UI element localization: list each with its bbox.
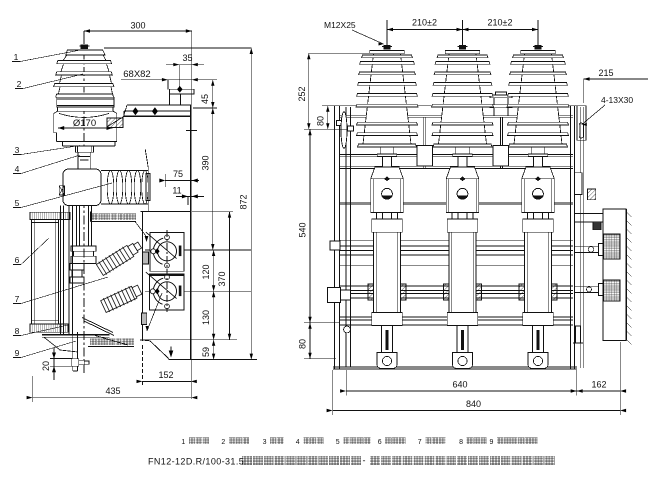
neck column xyxy=(534,157,543,167)
barrier B-C xyxy=(500,117,502,168)
insulator shed 4 xyxy=(56,94,114,97)
svg-text:872: 872 xyxy=(239,194,249,209)
bushing shed xyxy=(432,122,493,125)
switch side tab xyxy=(59,186,64,195)
operating hole 1 xyxy=(146,232,182,268)
frame edge near interrupter xyxy=(145,149,148,167)
svg-text:35: 35 xyxy=(182,53,192,63)
rail y166 xyxy=(340,165,574,167)
bushing shed xyxy=(510,72,567,75)
svg-text:2: 2 xyxy=(17,79,22,89)
frame right edge xyxy=(190,105,192,360)
bell flange xyxy=(58,107,114,111)
wire tick circle2 xyxy=(145,290,251,292)
svg-text:120: 120 xyxy=(201,264,211,279)
bushing shed xyxy=(437,55,488,58)
bushing shed xyxy=(508,122,569,125)
bolt on shelf 2 xyxy=(152,107,158,115)
shaft stub lower xyxy=(575,284,604,296)
dimension 162 xyxy=(571,380,626,393)
mech rod xyxy=(579,107,581,368)
contact housing (bell) xyxy=(371,167,404,179)
label 4-13X30 xyxy=(582,95,634,126)
dimension 370 xyxy=(192,212,233,340)
wire tick circle1 xyxy=(145,249,251,251)
dimension 300 xyxy=(84,21,192,65)
bottom plate line xyxy=(169,359,257,361)
insulator shed 2 xyxy=(56,72,113,75)
fuse tube top cap xyxy=(447,219,478,232)
svg-text:Ø170: Ø170 xyxy=(73,118,96,129)
svg-text:75: 75 xyxy=(173,169,183,179)
bushing shed xyxy=(511,62,566,65)
neck step xyxy=(528,154,547,157)
hinge flange stack xyxy=(71,246,96,251)
label earth switch op hole xyxy=(88,339,134,347)
dimension 59 xyxy=(201,340,215,360)
box hinge tab 1 xyxy=(143,252,149,264)
dimension 45 xyxy=(193,80,217,108)
svg-text:3: 3 xyxy=(15,145,20,155)
shaft coupling right xyxy=(476,284,482,300)
svg-text:4-13X30: 4-13X30 xyxy=(601,95,633,105)
wall plate xyxy=(603,209,626,341)
svg-text:M12X25: M12X25 xyxy=(324,20,356,30)
datum arrow xyxy=(169,347,174,358)
bushing shed xyxy=(433,83,492,86)
wire tick 59 top xyxy=(140,339,237,341)
load switch body xyxy=(63,169,101,206)
svg-text:9: 9 xyxy=(15,348,20,358)
bushing shed xyxy=(432,104,494,107)
bushing shed xyxy=(513,55,564,58)
dimension 840 xyxy=(327,342,626,415)
contact housing (bell) xyxy=(446,167,479,179)
mounting shelf xyxy=(107,105,191,127)
bushing neck xyxy=(531,147,545,154)
svg-text:4: 4 xyxy=(296,439,300,446)
insulator shed 1 xyxy=(57,61,112,64)
svg-text:540: 540 xyxy=(297,222,307,237)
dimension 210+-2 left xyxy=(387,18,463,44)
svg-text:252: 252 xyxy=(297,86,307,101)
svg-text:2: 2 xyxy=(221,439,225,446)
bushing neck xyxy=(380,147,394,154)
interrupter ring xyxy=(125,170,132,204)
terminal 1 (top bolt) xyxy=(81,45,88,49)
label load switch op hole xyxy=(91,212,137,222)
fuse tube top cap xyxy=(523,219,554,232)
bushing shed xyxy=(433,144,492,147)
dimension 252 xyxy=(297,53,369,129)
dimension 68X82 xyxy=(121,69,204,89)
upper shaft rails xyxy=(340,239,574,241)
fuse tube bottom cap xyxy=(447,313,478,326)
mounting rail double xyxy=(340,115,574,117)
bushing shed xyxy=(360,62,415,65)
insulator shed 3 xyxy=(54,84,114,87)
bushing shed xyxy=(434,72,491,75)
left bracket xyxy=(328,241,351,303)
neck step xyxy=(377,154,396,157)
insulator cap xyxy=(66,50,105,55)
bushing shed xyxy=(357,122,418,125)
drive shaft upper xyxy=(78,152,90,169)
svg-text:80: 80 xyxy=(297,339,307,349)
shaft coupling left xyxy=(368,284,374,300)
svg-text:370: 370 xyxy=(217,271,227,286)
dimension 130 xyxy=(201,291,215,340)
mounting slot 13X30 xyxy=(579,123,583,138)
base bracket B-C xyxy=(493,146,509,167)
fuse tube bottom cap xyxy=(372,313,403,326)
svg-text:59: 59 xyxy=(201,347,211,357)
bushing terminal bolt xyxy=(384,45,390,49)
bushing shed xyxy=(509,144,568,147)
dimension 35 xyxy=(166,53,204,89)
svg-text:9: 9 xyxy=(490,439,494,446)
svg-text:4: 4 xyxy=(15,164,20,174)
bottom bracket plate xyxy=(42,335,110,352)
bottom contact tab xyxy=(377,353,397,369)
fuse tube body xyxy=(525,232,552,312)
bushing terminal bolt xyxy=(459,45,465,49)
shaft coupling left xyxy=(444,284,450,300)
svg-text:3: 3 xyxy=(263,439,267,446)
neck column xyxy=(458,157,467,167)
interrupter ring xyxy=(142,170,149,204)
bushing cap xyxy=(370,51,404,54)
nut stack xyxy=(527,213,548,220)
frame top rail xyxy=(335,105,577,107)
neck column xyxy=(383,157,392,167)
fuse tube bottom cap xyxy=(523,313,554,326)
contact eye xyxy=(457,188,468,199)
dimension 75 xyxy=(159,169,199,187)
interrupter ring xyxy=(107,170,114,204)
bottom contact tab xyxy=(453,353,473,369)
svg-text:152: 152 xyxy=(158,370,173,380)
box hinge tab 2 xyxy=(142,313,147,325)
nut stack xyxy=(376,213,397,220)
fuse tube top cap xyxy=(372,219,403,232)
hatched mounting flange xyxy=(107,105,127,127)
shaft coupling left xyxy=(519,284,525,300)
bushing shed xyxy=(357,94,418,97)
mech bolt lower xyxy=(576,326,581,343)
phase centerline xyxy=(462,20,464,370)
operating panel 1 xyxy=(150,233,184,272)
dimension 640 xyxy=(340,370,583,396)
dimension 11 xyxy=(172,186,204,206)
bushing shed xyxy=(507,104,569,107)
contact housing (bell) xyxy=(522,167,555,179)
svg-text:11: 11 xyxy=(172,186,181,196)
wall block lower xyxy=(604,280,621,301)
box centerline xyxy=(166,230,168,312)
right flange plate xyxy=(577,106,586,141)
svg-text:1: 1 xyxy=(181,439,185,446)
svg-text:162: 162 xyxy=(591,380,606,390)
svg-text:6: 6 xyxy=(15,255,20,265)
operating panel 2 xyxy=(150,274,184,310)
diamond mark xyxy=(535,177,541,182)
shaft stub upper xyxy=(575,244,604,256)
interrupter tube xyxy=(101,171,150,205)
left upright xyxy=(334,106,336,369)
shaft coupling right xyxy=(552,284,558,300)
contact eye xyxy=(382,188,393,199)
shaft coupling right xyxy=(401,284,407,300)
earthing arm vertical xyxy=(73,332,78,371)
rail y154 xyxy=(340,153,574,155)
phase centerline xyxy=(386,20,388,370)
bushing shed xyxy=(435,62,490,65)
rail y203 xyxy=(340,202,574,204)
svg-text:5: 5 xyxy=(336,439,340,446)
bushing shed xyxy=(362,55,413,58)
base bracket A-B xyxy=(417,146,433,167)
title xyxy=(148,456,554,467)
earthing bolt xyxy=(71,359,89,367)
svg-text:840: 840 xyxy=(466,399,481,409)
bushing shed xyxy=(508,94,569,97)
mech pivot block xyxy=(593,222,601,230)
bushing shed xyxy=(357,133,418,136)
bushing shed xyxy=(358,83,417,86)
svg-text:45: 45 xyxy=(200,94,210,104)
bushing core xyxy=(363,54,411,144)
bushing shed xyxy=(432,133,493,136)
dimension 80 lower xyxy=(297,323,336,359)
svg-text:7: 7 xyxy=(418,439,422,446)
svg-text:7: 7 xyxy=(15,294,20,304)
mech hatched block xyxy=(588,189,596,200)
svg-text:210±2: 210±2 xyxy=(488,18,513,28)
leader to hole 1 xyxy=(135,222,148,243)
mech bracket xyxy=(575,173,583,195)
bushing core xyxy=(514,54,562,144)
bushing shed xyxy=(358,144,417,147)
striker housing xyxy=(457,326,468,353)
svg-text:FN12-12D.R/100-31.5: FN12-12D.R/100-31.5 xyxy=(148,457,244,467)
bushing shed xyxy=(359,72,416,75)
bushing terminal bolt xyxy=(535,45,541,49)
svg-text:215: 215 xyxy=(598,68,613,78)
striker housing xyxy=(382,326,393,353)
svg-text:8: 8 xyxy=(459,439,463,446)
hinge blocks xyxy=(70,263,84,270)
label M12X25 xyxy=(324,20,384,46)
svg-text:8: 8 xyxy=(15,326,20,336)
dimension 215 xyxy=(584,68,648,103)
svg-text:130: 130 xyxy=(201,310,211,325)
dimension 390 xyxy=(201,108,215,250)
fuse tube body xyxy=(374,232,401,312)
svg-text:6: 6 xyxy=(378,439,382,446)
frame bottom xyxy=(333,366,577,368)
centerline left phase xyxy=(83,34,85,375)
barrier A-B xyxy=(423,117,425,168)
dimension 80 upper xyxy=(315,106,352,130)
aux insulator xyxy=(490,92,512,116)
svg-text:390: 390 xyxy=(201,155,211,170)
wall block upper xyxy=(604,234,621,259)
bushing core xyxy=(439,54,487,144)
svg-text:80: 80 xyxy=(315,116,325,126)
fuse canister bottom cap xyxy=(30,324,68,332)
dimension 872 xyxy=(104,48,253,360)
bolt on shelf 1 xyxy=(132,107,138,115)
fuse tube body xyxy=(449,232,476,312)
fuse holder upper bellows xyxy=(96,239,144,277)
parts list row xyxy=(181,437,537,446)
contact eye xyxy=(533,188,544,199)
dimension 152 xyxy=(137,345,197,386)
fuse canister top cap xyxy=(30,212,70,219)
leader to hole 2 xyxy=(146,293,163,331)
bushing cap xyxy=(445,51,479,54)
earthing blade xyxy=(82,318,128,346)
insulator base cylinder xyxy=(57,97,114,107)
bracket bolt xyxy=(177,86,183,93)
nut stack xyxy=(452,213,473,220)
svg-text:210±2: 210±2 xyxy=(412,18,437,28)
drive shaft lower xyxy=(77,206,92,247)
operating box outline xyxy=(140,212,191,359)
fuse canister body xyxy=(32,220,59,325)
svg-text:68X82: 68X82 xyxy=(123,69,150,80)
lower rails xyxy=(340,316,574,318)
interrupter ring xyxy=(116,170,123,204)
insulator core xyxy=(59,55,113,94)
bushing neck xyxy=(456,147,470,154)
dimension phi170 xyxy=(58,118,112,130)
interrupter ring xyxy=(134,170,141,204)
operating hole 2 xyxy=(146,272,182,309)
dimension 540 xyxy=(297,129,340,323)
striker housing xyxy=(533,326,544,353)
diamond mark xyxy=(460,177,466,182)
dimension 120 xyxy=(201,250,215,291)
bushing shed xyxy=(432,94,493,97)
svg-text:1: 1 xyxy=(14,52,19,62)
svg-text:435: 435 xyxy=(105,386,120,396)
left slot hole xyxy=(344,326,351,333)
support column xyxy=(61,206,73,335)
main drive shaft xyxy=(340,285,574,287)
operating lever xyxy=(337,112,354,149)
svg-text:20: 20 xyxy=(41,361,51,371)
phase centerline xyxy=(537,20,539,370)
svg-text:-: - xyxy=(363,456,366,466)
mech ties top xyxy=(575,213,604,215)
upper bracket xyxy=(168,65,194,106)
svg-text:300: 300 xyxy=(130,21,145,31)
fuse holder lower bellows xyxy=(100,283,143,314)
wall hatch xyxy=(627,209,632,345)
dimension 210+-2 right xyxy=(463,18,539,44)
neck step xyxy=(453,154,472,157)
bushing cap xyxy=(521,51,555,54)
dimension 20 xyxy=(41,348,72,380)
bottom contact tab xyxy=(528,353,548,369)
diamond mark xyxy=(384,177,390,182)
svg-text:5: 5 xyxy=(15,198,20,208)
bushing shed xyxy=(508,133,569,136)
dimension 435 xyxy=(27,376,198,402)
svg-text:640: 640 xyxy=(452,380,467,390)
support pedestal xyxy=(76,146,94,152)
bushing shed xyxy=(509,83,568,86)
bell housing xyxy=(54,111,117,141)
right upright xyxy=(570,106,572,369)
bushing shed xyxy=(356,104,418,107)
